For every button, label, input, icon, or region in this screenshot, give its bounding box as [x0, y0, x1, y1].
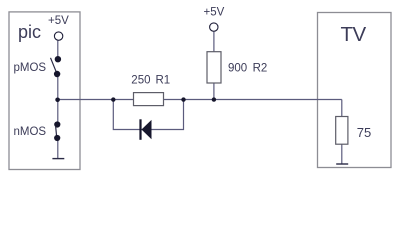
svg-text:pic: pic: [18, 22, 41, 42]
svg-text:+5V: +5V: [48, 15, 69, 27]
svg-text:+5V: +5V: [204, 7, 225, 19]
svg-text:pMOS: pMOS: [14, 62, 47, 74]
svg-text:nMOS: nMOS: [14, 126, 47, 138]
svg-text:TV: TV: [341, 23, 367, 46]
svg-text:R1: R1: [156, 75, 171, 87]
svg-text:250: 250: [131, 75, 150, 87]
svg-text:75: 75: [357, 125, 371, 140]
svg-text:900: 900: [228, 62, 247, 74]
svg-text:R2: R2: [253, 62, 268, 74]
